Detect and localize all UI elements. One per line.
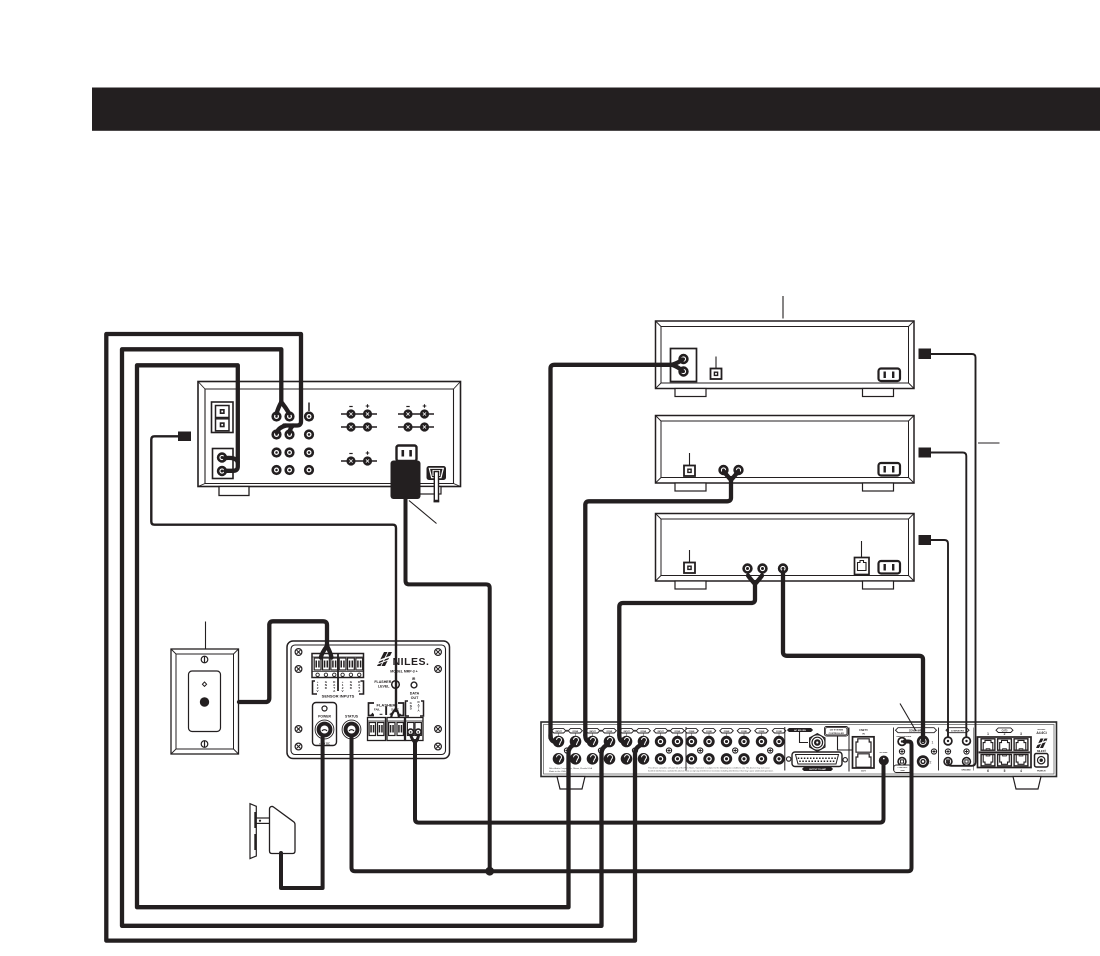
wire zone1 output to amp aux (137, 365, 574, 907)
receiver label leader (900, 704, 916, 732)
status trigger group (894, 728, 939, 773)
coax antenna jack (810, 734, 825, 752)
keypad insert (189, 671, 221, 732)
IR indicator (411, 677, 417, 688)
svg-text:MODEL MRP-3 +: MODEL MRP-3 + (390, 670, 417, 674)
keypad screw top (201, 656, 208, 663)
status jack (342, 715, 361, 739)
keypad sensor lens (200, 697, 209, 706)
adapter leader line (409, 501, 437, 524)
svg-text:ZONE: ZONE (572, 731, 578, 733)
sensor input terminal block (312, 654, 364, 692)
wire source1 to input1 (551, 365, 675, 738)
input zone jack pairs (553, 734, 684, 765)
label leader right (978, 442, 1000, 444)
wire zone3 forks (277, 426, 286, 433)
RCA input jack grid (271, 411, 314, 475)
speaker terminals B (398, 404, 434, 431)
wire source2 forks (724, 472, 731, 481)
svg-text:1: 1 (987, 732, 989, 736)
svg-text:OUTPUT TO AMP: OUTPUT TO AMP (809, 768, 827, 771)
svg-text:ZONE: ZONE (759, 731, 765, 733)
receiver power jack (1035, 754, 1049, 773)
wire power supply to MRP power (281, 737, 323, 888)
plug-in power adapter (391, 461, 421, 500)
svg-text:CNET®: CNET® (859, 729, 868, 732)
DB25 connector (787, 752, 848, 771)
flasher level pot (374, 680, 399, 689)
svg-text:INPUT: INPUT (624, 731, 631, 733)
zone output jacks (685, 729, 786, 765)
sensor input labels (313, 680, 364, 699)
wire status to trigger (352, 737, 912, 871)
source 1 digital connector (711, 357, 722, 380)
svg-text:IR: IR (412, 677, 416, 681)
aux input jack block (213, 449, 234, 479)
MRP mounting screws (295, 649, 441, 750)
wire keypad forks (321, 646, 327, 658)
source 3 AC outlet (879, 561, 901, 574)
header bar (92, 88, 1100, 131)
source unit 2 (656, 416, 915, 492)
group separator (685, 727, 687, 771)
source 1 AC outlet (879, 369, 901, 382)
svg-text:ZONE: ZONE (706, 731, 712, 733)
power jack (313, 703, 337, 746)
svg-text:DATA: DATA (410, 692, 420, 696)
svg-text:CONTROL: CONTROL (898, 767, 909, 769)
wire source3 to input3 (619, 582, 755, 735)
MRP-3+ module body (287, 641, 450, 759)
source 1 leader line (782, 296, 784, 319)
amplifier right foot (406, 487, 441, 495)
svg-text:A4.6Ci: A4.6Ci (1036, 731, 1046, 735)
svg-text:ZONE: ZONE (776, 731, 782, 733)
source 2 AC outlet (879, 463, 901, 476)
svg-text:A SENSORS: A SENSORS (951, 729, 964, 732)
speaker terminals C (341, 451, 377, 465)
wire source3 zone feed (783, 572, 923, 740)
svg-text:SUB: SUB (900, 770, 905, 772)
svg-text:D: D (410, 707, 412, 711)
svg-text:1: 1 (932, 740, 934, 744)
wire source3 forks (748, 576, 755, 585)
wire keypad to sensor input (239, 621, 327, 702)
svg-text:ZONE: ZONE (674, 731, 680, 733)
svg-text:NILES.: NILES. (393, 656, 430, 668)
Niles logo (377, 652, 429, 674)
FCC notice text (549, 767, 774, 773)
svg-text:POWER: POWER (318, 715, 331, 719)
svg-text:AC IRD IRS: AC IRD IRS (794, 729, 806, 732)
svg-text:ZONE: ZONE (640, 731, 646, 733)
svg-text:FLASHER: FLASHER (374, 680, 391, 684)
wire flasher (151, 436, 396, 711)
source 3 output jacks (744, 565, 787, 573)
wire flasher forks (391, 709, 396, 717)
svg-text:2: 2 (930, 760, 932, 764)
svg-text:INPUT: INPUT (590, 731, 597, 733)
source 2 IR emitter (919, 448, 932, 458)
flasher terminal labels (369, 703, 404, 716)
wire source2 to input2 (585, 478, 731, 735)
svg-text:OUT: OUT (861, 771, 866, 773)
wire data out to IR input (415, 741, 884, 823)
source 2 output jacks (720, 466, 743, 474)
svg-text:Niles Audio Corporation, Miami: Niles Audio Corporation, Miami, Florida … (549, 767, 593, 770)
wire data out forks (411, 735, 415, 743)
IR ground jack (879, 752, 889, 766)
svg-text:ZONE: ZONE (606, 731, 612, 733)
data out label (406, 692, 424, 717)
svg-text:CONTROLLER: CONTROLLER (829, 733, 845, 735)
source unit 1 (656, 321, 915, 397)
svg-text:This device complies with part: This device complies with part 15 of the… (648, 767, 771, 770)
svg-text:Made in the USA: Made in the USA (549, 770, 566, 773)
svg-text:IN: IN (862, 734, 865, 736)
CAT5 hub block (849, 728, 874, 773)
wire zone3 output to amp input row2 (106, 334, 641, 941)
antenna terminal block (212, 402, 234, 433)
wire IR emitter 1 (930, 354, 976, 766)
svg-text:GROUND: GROUND (961, 770, 971, 772)
speaker terminals A (341, 404, 377, 431)
receiver rear panel (541, 722, 1057, 777)
svg-text:FAIL: FAIL (374, 708, 380, 712)
source 3 IR connector (684, 550, 695, 573)
receiver Niles logo and model (1036, 729, 1048, 753)
group separator 2 (784, 727, 786, 771)
svg-text:INPUT: INPUT (658, 731, 665, 733)
svg-text:3: 3 (1020, 732, 1022, 736)
svg-text:5: 5 (1004, 769, 1006, 773)
svg-text:harmful interference, and (2): harmful interference, and (2) this devic… (648, 769, 774, 772)
wire IR emitter 3 (930, 540, 948, 737)
svg-text:LEVEL: LEVEL (378, 684, 390, 688)
svg-text:STATUS: STATUS (345, 715, 359, 719)
antenna label (788, 728, 813, 742)
svg-text:ZONE: ZONE (741, 731, 747, 733)
svg-text:6: 6 (987, 769, 989, 773)
IR flasher emitter amp (178, 432, 191, 442)
receiver right foot (1013, 777, 1041, 790)
keypad leader line (205, 622, 207, 650)
source 1 input jack block (671, 349, 697, 382)
12V system controller label (825, 727, 853, 751)
svg-text:SENSOR INPUTS: SENSOR INPUTS (322, 694, 355, 699)
jack stub leader (308, 403, 310, 412)
keypad screw bottom (201, 741, 208, 748)
keypad IR window (202, 682, 206, 686)
wire source1 forks (672, 360, 683, 365)
receiver left foot (557, 777, 585, 790)
CAT5 speaker block (978, 728, 1032, 773)
AC inlet and cord (427, 466, 447, 501)
svg-text:NILES®: NILES® (1037, 750, 1046, 753)
svg-text:POWER: POWER (1037, 770, 1046, 772)
switched AC outlet (397, 446, 417, 462)
wire adapter 12V trigger (406, 498, 490, 871)
source 3 IR emitter (919, 535, 932, 545)
wire zone1 hook (225, 458, 238, 463)
amplifier rear panel (198, 382, 461, 487)
amplifier foot (219, 487, 249, 496)
wire IR emitter 2 (930, 453, 966, 738)
svg-text:4: 4 (1020, 769, 1022, 773)
wall outlet plate (250, 804, 257, 859)
svg-text:IR GND: IR GND (880, 752, 888, 754)
flasher terminal blocks (368, 718, 405, 741)
source 2 IR connector (684, 453, 695, 476)
power supply body (256, 806, 295, 853)
source unit 3 (656, 514, 915, 590)
source 1 IR emitter (919, 349, 932, 360)
data out terminal block (406, 718, 424, 741)
IR sensors group (944, 728, 973, 772)
IR keypad wall plate (171, 649, 239, 754)
junction dot (485, 867, 494, 876)
wire zone2 forks (277, 402, 282, 414)
svg-text:ZONE: ZONE (689, 731, 695, 733)
svg-text:INPUT: INPUT (556, 731, 563, 733)
svg-text:ZONE: ZONE (724, 731, 730, 733)
svg-text:2: 2 (1004, 732, 1006, 736)
svg-text:12V SYSTEM: 12V SYSTEM (829, 730, 843, 732)
wire zone2 output to amp input row1 (122, 349, 607, 926)
input zone labels (552, 729, 685, 733)
source 3 optical connector (855, 541, 870, 575)
